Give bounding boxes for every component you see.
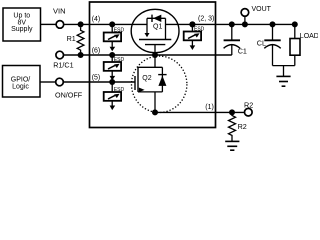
wire CL/LOAD to ground (273, 65, 295, 67)
svg-text:VOUT: VOUT (252, 6, 272, 13)
Q1 gate lead (154, 45, 156, 55)
transistor Q1 (pass PMOS) (131, 9, 179, 55)
wire GPIO to ON/OFF terminal (40, 81, 55, 83)
Q2 body arrow (139, 88, 145, 93)
svg-text:R1: R1 (67, 34, 76, 43)
svg-text:GPIO/: GPIO/ (11, 76, 31, 83)
Q1 source stub with arrow (146, 18, 148, 33)
svg-text:R2: R2 (238, 122, 247, 131)
R2 terminal (244, 100, 253, 116)
Q2 drain stub (154, 55, 156, 67)
Q1 gate bar (145, 44, 165, 46)
svg-text:C1: C1 (238, 47, 247, 56)
wire supply to VIN terminal (41, 23, 56, 25)
svg-text:Q1: Q1 (153, 23, 162, 30)
Q2 source stub (154, 92, 156, 113)
ground (R2) (225, 141, 239, 150)
svg-text:Supply: Supply (11, 26, 33, 33)
IC boundary box (90, 2, 216, 128)
ground (load) (276, 66, 290, 87)
node gate (pin6/Q1 gate/Q2 drain) (152, 52, 158, 58)
svg-text:(6): (6) (92, 48, 101, 55)
svg-text:CL: CL (257, 39, 266, 48)
svg-text:Up to: Up to (13, 12, 30, 19)
Q2 body diode branch (161, 67, 163, 92)
transistor Q2 (control NMOS, dashed circle) (132, 55, 187, 113)
svg-text:(2, 3): (2, 3) (198, 15, 214, 22)
wire ON/OFF to IC pin 5 / Q2 gate (64, 81, 135, 83)
svg-text:R2: R2 (244, 100, 253, 109)
Q1 body-diode top line (147, 17, 166, 19)
Q1 channel (139, 39, 171, 41)
wire VIN to IC pin 4 / node VIN (64, 21, 147, 27)
svg-text:(5): (5) (92, 74, 101, 81)
svg-text:ON/OFF: ON/OFF (55, 91, 83, 100)
GPIO/Logic box (3, 66, 41, 98)
svg-text:LOAD: LOAD (300, 33, 318, 40)
Q1 drain stub (165, 18, 167, 39)
svg-text:VIN: VIN (53, 6, 66, 15)
wire / net R1C1: pin 6 line from terminal through IC to C1 (64, 52, 232, 58)
svg-text:Logic: Logic (12, 84, 29, 91)
resistor R1 (67, 27, 84, 55)
resistor R2 (229, 112, 247, 141)
capacitor CL (257, 24, 281, 65)
Q2 gate bar (134, 76, 136, 90)
capacitor C1 (224, 24, 247, 55)
svg-text:R1/C1: R1/C1 (53, 60, 73, 69)
ON/OFF terminal (55, 78, 83, 99)
vout net: Q1 drain to load (166, 21, 298, 27)
svg-text:(1): (1) (205, 104, 214, 111)
LOAD resistor (290, 24, 319, 65)
ESD cell 4 (VOUT) (184, 21, 205, 50)
ESD cell 2 (pin 6) (104, 52, 125, 81)
pin 1 net: Q2 source to R2 (152, 109, 244, 115)
svg-text:(4): (4) (92, 16, 101, 23)
Q2 channel (137, 67, 139, 92)
ESD cell 3 (pin 5) (104, 79, 125, 110)
supply box (3, 8, 41, 41)
R1/C1 terminal (53, 51, 73, 69)
VOUT terminal (241, 6, 272, 25)
Q1 body diode (151, 15, 153, 22)
VIN terminal (53, 6, 66, 28)
ESD cell 1 (pin 4) (104, 21, 125, 51)
svg-text:Q2: Q2 (142, 75, 151, 82)
Q2 source lead (138, 91, 162, 93)
